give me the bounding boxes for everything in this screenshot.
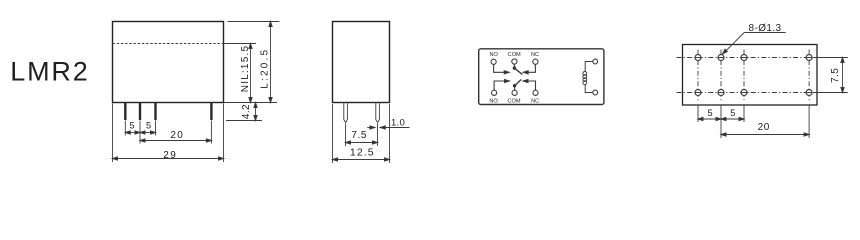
hole A1 <box>695 55 701 61</box>
pivot dot COM bottom <box>513 84 516 87</box>
extension line NIL level right <box>224 43 257 45</box>
dimension 5 (hole pitch left) <box>698 105 721 138</box>
terminal COM bottom <box>512 90 517 95</box>
terminal NC top <box>533 59 538 64</box>
dimension 4.2 (pin length) <box>241 103 257 121</box>
movable contact arm top <box>514 68 522 74</box>
dimension 5 (hole pitch right) <box>721 105 744 122</box>
terminal NC bottom <box>533 90 538 95</box>
wire NC top <box>523 64 535 74</box>
dimension L:20.5 (overall height) <box>260 22 272 103</box>
terminal COM top <box>512 59 517 64</box>
hole B4 <box>806 90 812 96</box>
svg-text:20: 20 <box>170 130 184 141</box>
svg-text:5: 5 <box>146 121 151 131</box>
hole A2 <box>718 55 724 61</box>
dimension 7.5 (side pin pitch) <box>346 124 378 147</box>
wire NO bottom <box>494 79 509 90</box>
hole A4 <box>806 55 812 61</box>
centerline column 3 <box>743 50 745 101</box>
front view body <box>113 22 224 103</box>
svg-text:4.2: 4.2 <box>241 104 252 119</box>
wire COM bottom stub <box>514 86 516 90</box>
dimension NIL:15.5 (height to cover line) <box>240 44 252 103</box>
terminal NO top <box>491 59 496 64</box>
svg-text:29: 29 <box>163 150 177 161</box>
hole B2 <box>718 90 724 96</box>
svg-text:L:20.5: L:20.5 <box>260 48 271 89</box>
extension line pin tip right <box>226 120 262 122</box>
pin 4 <box>210 102 212 120</box>
svg-text:COM: COM <box>507 98 520 104</box>
movable contact arm bottom <box>515 80 522 86</box>
coil terminal top <box>593 59 598 64</box>
svg-text:NO: NO <box>489 98 498 104</box>
side view body <box>333 22 390 103</box>
svg-text:NC: NC <box>531 98 539 104</box>
coil winding <box>583 72 587 85</box>
svg-text:7.5: 7.5 <box>830 68 841 83</box>
schematic box <box>479 49 604 105</box>
pin 1 <box>124 102 126 120</box>
svg-text:1.0: 1.0 <box>391 118 405 129</box>
hole B3 <box>741 90 747 96</box>
centerline column 1 <box>697 50 699 101</box>
dimension 29 (body width) <box>113 104 224 163</box>
side pin 1 <box>344 102 348 123</box>
svg-text:COM: COM <box>508 52 521 58</box>
wire NC bottom <box>523 79 536 90</box>
terminal NO bottom <box>492 90 497 95</box>
coil terminal bottom <box>593 90 598 95</box>
dimension 1.0 (pin thickness) <box>367 118 409 130</box>
svg-text:5: 5 <box>730 108 735 118</box>
svg-text:NC: NC <box>531 52 539 58</box>
wire COM top stub <box>513 64 515 68</box>
centerline row bottom <box>677 92 821 94</box>
extension line body top right <box>228 21 280 23</box>
dimension 7.5 (hole row pitch) <box>813 58 848 93</box>
bottom view outline <box>683 45 818 106</box>
svg-text:20: 20 <box>758 122 770 133</box>
wire NO top <box>494 65 510 74</box>
pin 2 <box>139 102 141 120</box>
coil wire top <box>585 62 593 72</box>
svg-text:NIL:15.5: NIL:15.5 <box>240 45 251 92</box>
centerline column 2 <box>720 50 722 101</box>
hole B1 <box>695 90 701 96</box>
centerline column 4 <box>808 50 810 101</box>
dimension 20 (hole span) <box>721 105 809 138</box>
hole A3 <box>741 55 747 61</box>
svg-text:12.5: 12.5 <box>350 147 375 159</box>
svg-text:NO: NO <box>490 52 499 58</box>
dimension 5 (pin pitch right) <box>140 121 156 136</box>
svg-text:7.5: 7.5 <box>351 130 367 141</box>
svg-text:5: 5 <box>707 108 712 118</box>
coil wire bottom <box>585 84 593 92</box>
dimension 20 (pin span) <box>140 121 211 144</box>
svg-text:LMR2: LMR2 <box>10 57 89 87</box>
extension line body bottom right <box>224 102 278 104</box>
svg-text:5: 5 <box>129 121 134 131</box>
dimension 12.5 (side body width) <box>333 104 390 163</box>
side pin 2 <box>376 102 380 123</box>
front view cover line (dashed) <box>113 43 224 45</box>
pivot dot COM top <box>513 66 516 69</box>
dimension 5 (pin pitch left) <box>125 121 140 136</box>
centerline row top <box>677 57 821 59</box>
leader label 8-dia1.3 <box>721 23 785 55</box>
pin 3 <box>154 102 156 120</box>
